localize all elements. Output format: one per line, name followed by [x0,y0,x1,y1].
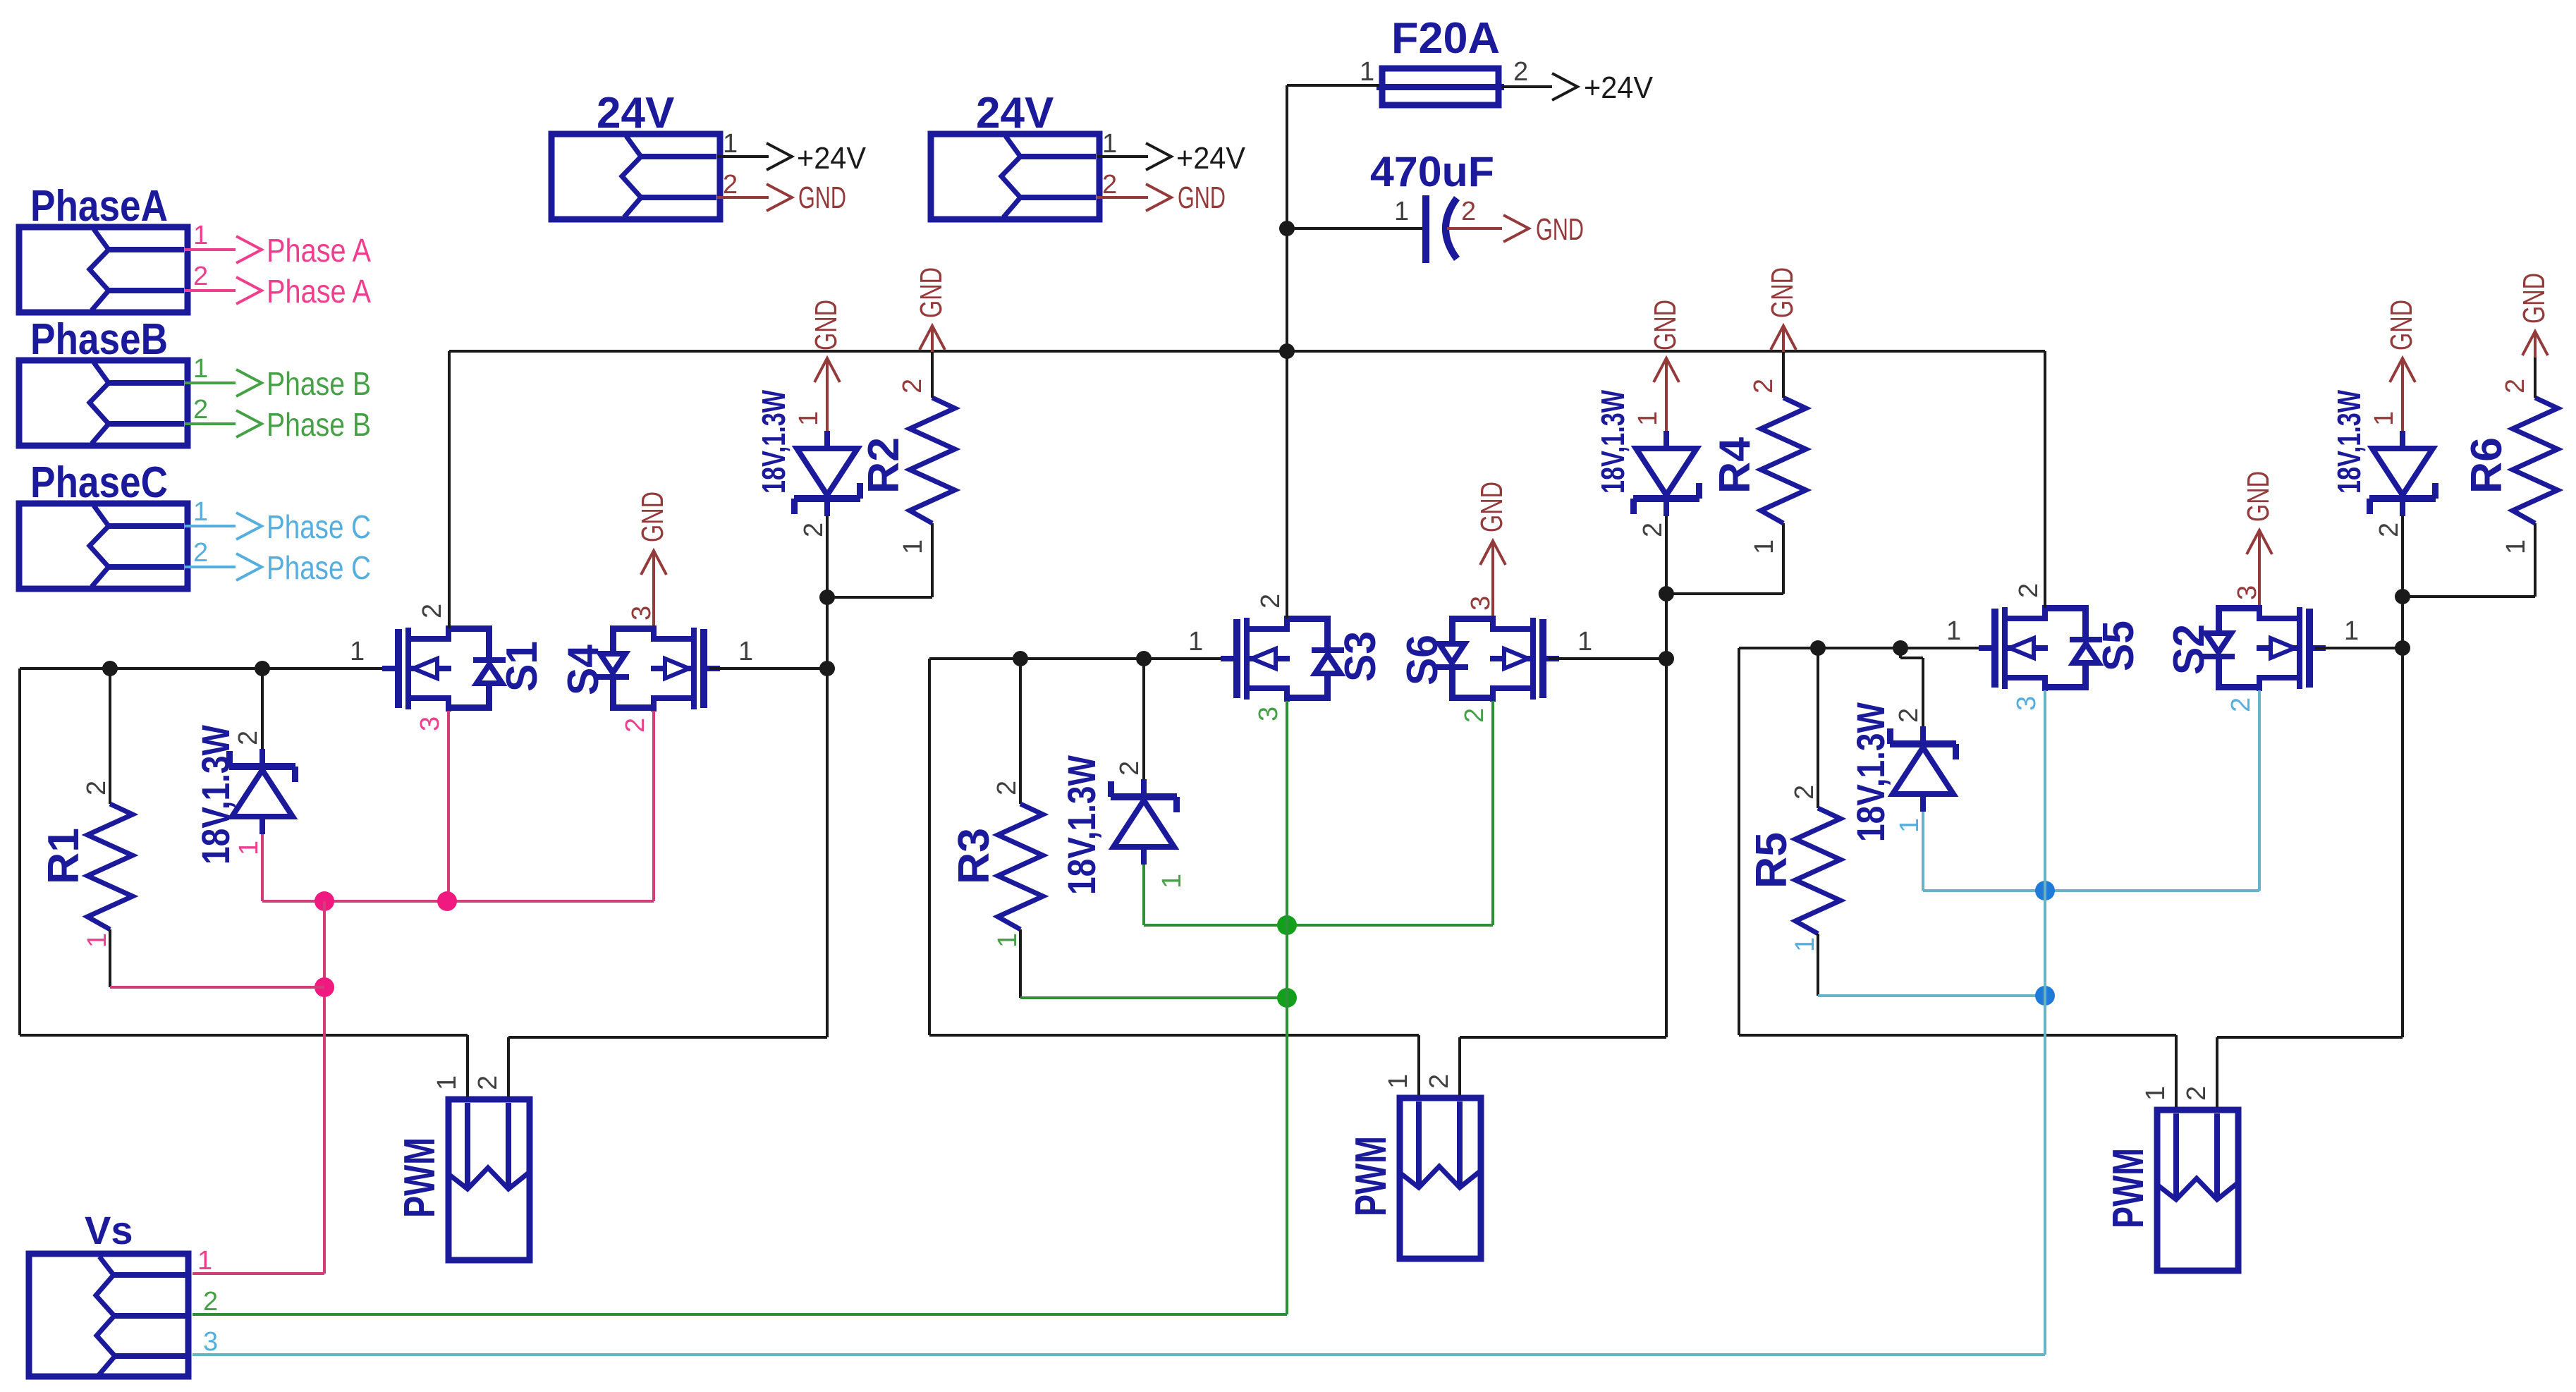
svg-text:18V,1.3W: 18V,1.3W [755,390,792,494]
svg-text:2: 2 [621,718,650,733]
svg-text:1: 1 [2344,616,2359,646]
svg-text:R1: R1 [39,828,88,884]
svg-text:2: 2 [723,170,738,200]
svg-text:S4: S4 [559,645,608,695]
svg-text:+24V: +24V [1176,141,1246,176]
svg-text:1: 1 [1188,627,1203,657]
svg-text:Phase C: Phase C [267,549,371,586]
svg-text:2: 2 [233,731,263,745]
svg-text:2: 2 [1256,594,1286,609]
svg-text:GND: GND [2241,471,2276,522]
svg-text:S3: S3 [1336,631,1385,682]
svg-text:18V,1.3W: 18V,1.3W [1848,702,1893,842]
svg-text:24V: 24V [976,89,1054,138]
svg-text:2: 2 [193,395,208,425]
svg-text:PhaseC: PhaseC [30,458,168,507]
svg-text:PWM: PWM [396,1137,444,1218]
svg-text:2: 2 [898,379,927,393]
svg-text:2: 2 [473,1075,503,1090]
svg-text:1: 1 [2501,539,2531,554]
svg-text:1: 1 [1102,129,1117,159]
svg-text:3: 3 [627,606,657,621]
svg-text:18V,1.3W: 18V,1.3W [193,725,238,865]
svg-text:Phase A: Phase A [267,273,371,310]
svg-text:2: 2 [1461,197,1476,226]
svg-text:R4: R4 [1711,436,1759,494]
svg-text:1: 1 [197,1246,212,1276]
svg-text:1: 1 [723,129,738,159]
svg-text:1: 1 [1157,874,1187,889]
svg-text:2: 2 [82,781,111,795]
svg-text:470uF: 470uF [1370,148,1494,195]
svg-text:2: 2 [992,781,1022,795]
svg-text:2: 2 [799,523,829,537]
svg-text:2: 2 [417,604,447,618]
svg-text:2: 2 [2501,379,2530,393]
svg-text:3: 3 [203,1327,218,1357]
svg-text:F20A: F20A [1391,14,1500,63]
svg-text:2: 2 [1115,761,1144,776]
svg-text:Phase B: Phase B [267,365,371,402]
svg-text:Phase A: Phase A [267,232,371,269]
svg-text:2: 2 [1424,1074,1454,1089]
svg-text:PhaseB: PhaseB [30,315,168,364]
svg-text:1: 1 [193,221,208,250]
svg-text:S2: S2 [2165,624,2214,675]
svg-text:S5: S5 [2094,621,2143,671]
svg-text:1: 1 [193,497,208,527]
svg-text:1: 1 [1790,937,1820,952]
svg-text:PWM: PWM [2104,1148,2153,1228]
svg-text:1: 1 [2141,1086,2171,1101]
svg-text:GND: GND [1648,300,1683,350]
svg-text:1: 1 [738,637,753,666]
svg-text:1: 1 [1577,627,1592,657]
svg-text:PhaseA: PhaseA [30,182,168,231]
svg-text:1: 1 [1895,818,1924,833]
svg-text:2: 2 [203,1287,218,1317]
svg-text:3: 3 [415,716,445,731]
svg-text:1: 1 [1384,1074,1413,1089]
svg-text:2: 2 [193,262,208,291]
svg-text:1: 1 [1946,616,1961,646]
svg-text:1: 1 [1633,411,1663,426]
svg-text:3: 3 [2233,585,2262,600]
svg-text:1: 1 [83,933,112,948]
svg-text:18V,1.3W: 18V,1.3W [1059,755,1104,895]
svg-text:2: 2 [193,538,208,568]
svg-text:1: 1 [794,411,824,426]
svg-text:R5: R5 [1747,832,1796,889]
svg-text:24V: 24V [597,89,674,138]
svg-text:GND: GND [1178,181,1226,215]
svg-text:1: 1 [350,637,365,666]
svg-text:GND: GND [1536,212,1584,247]
svg-text:Vs: Vs [85,1208,133,1252]
svg-text:R3: R3 [950,828,999,884]
svg-text:GND: GND [635,492,670,542]
svg-text:1: 1 [898,539,928,554]
svg-text:GND: GND [1475,482,1509,532]
svg-text:1: 1 [193,354,208,384]
svg-text:18V,1.3W: 18V,1.3W [2331,390,2367,494]
svg-text:1: 1 [1360,57,1374,87]
svg-text:3: 3 [1466,596,1496,611]
svg-text:2: 2 [2014,583,2044,598]
svg-text:GND: GND [2384,300,2419,350]
svg-text:2: 2 [1513,57,1528,87]
svg-text:2: 2 [1460,708,1489,723]
svg-text:2: 2 [1749,379,1778,393]
svg-text:1: 1 [234,841,264,855]
svg-text:2: 2 [2374,523,2404,537]
svg-text:PWM: PWM [1347,1136,1396,1216]
svg-text:Phase C: Phase C [267,508,371,545]
svg-text:1: 1 [1750,539,1779,554]
svg-text:2: 2 [2226,697,2256,712]
svg-text:GND: GND [2517,273,2551,324]
svg-text:GND: GND [798,181,846,215]
svg-text:GND: GND [1765,267,1800,318]
svg-text:3: 3 [2012,696,2041,711]
svg-text:2: 2 [1790,785,1819,800]
svg-text:GND: GND [914,267,948,318]
svg-text:S1: S1 [498,641,547,692]
svg-text:3: 3 [1254,707,1283,721]
svg-text:GND: GND [809,300,843,350]
svg-text:+24V: +24V [1584,71,1654,105]
svg-text:R6: R6 [2462,437,2511,494]
svg-text:R2: R2 [860,437,908,494]
svg-text:2: 2 [1894,708,1924,723]
svg-text:2: 2 [2182,1086,2211,1101]
svg-text:2: 2 [1638,523,1668,537]
svg-text:Phase B: Phase B [267,406,371,443]
svg-text:1: 1 [2369,411,2399,426]
svg-text:1: 1 [993,933,1023,948]
svg-text:18V,1.3W: 18V,1.3W [1594,390,1631,494]
svg-text:1: 1 [432,1075,462,1090]
svg-text:1: 1 [1394,197,1409,226]
svg-text:S6: S6 [1398,635,1447,685]
svg-text:2: 2 [1102,170,1117,200]
svg-text:+24V: +24V [797,141,867,176]
